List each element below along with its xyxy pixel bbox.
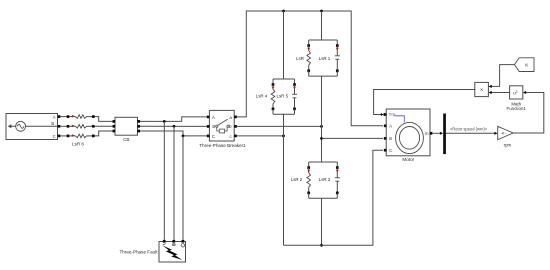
wire K to product: [489, 65, 515, 88]
CB input ports: [113, 120, 116, 132]
svg-text:A: A: [389, 124, 392, 129]
label Three-Phase Fault: [119, 249, 158, 254]
svg-text:C: C: [212, 134, 215, 139]
fault lightning bolt: [162, 245, 182, 260]
node tap C: [182, 135, 185, 138]
svg-text:Three-Phase Fault: Three-Phase Fault: [119, 249, 158, 254]
svg-text:Three-Phase Breaker1: Three-Phase Breaker1: [199, 143, 246, 148]
wire LsR4-5 bottom down to bottom rail: [283, 114, 285, 245]
series RL branch LsR 5: [292, 79, 297, 114]
wire fault tap B down: [173, 126, 175, 240]
svg-text:×: ×: [480, 88, 483, 94]
wire source B to branch: [60, 125, 66, 127]
motor outer circle: [396, 122, 424, 153]
breaker switch symbol: [216, 119, 229, 133]
svg-text:Function1: Function1: [507, 106, 527, 111]
parallel pair LsR 4 / LsR 5 frame bars: [273, 79, 295, 114]
node rail tee: [320, 244, 323, 247]
wire breaker c to node: [237, 135, 284, 137]
svg-text:LsR 2: LsR 2: [291, 177, 303, 182]
series RL branch LsR 1: [335, 40, 340, 76]
wire bus bar to gain: [446, 132, 498, 135]
series RL branch LsR 6 phase A: [67, 115, 95, 119]
wire gain to math function: [513, 91, 544, 133]
label Motor: [402, 157, 414, 162]
wire breaker b to node: [237, 125, 322, 127]
motor port letters: [389, 124, 429, 153]
node c join: [282, 135, 285, 138]
wire LsR-1 bottom down to LsR2-3 top: [321, 76, 323, 162]
motor port Tm: [384, 113, 387, 116]
gain block rpm: [498, 126, 514, 139]
wire branch B to CB in2: [95, 125, 113, 127]
block Three-Phase Breaker1: [209, 110, 234, 141]
svg-text:LsR 1: LsR 1: [319, 56, 331, 61]
node tap A: [163, 120, 166, 123]
block Product: [475, 82, 489, 96]
label CB: [123, 137, 129, 142]
series RL branch LsR 6 phase C: [67, 134, 95, 138]
motor port m: [430, 132, 433, 135]
svg-text:rpm: rpm: [504, 143, 512, 148]
motor port A: [384, 124, 387, 127]
series RL branch LsR 4: [271, 79, 275, 114]
svg-text:Tm: Tm: [389, 112, 396, 118]
goto tag K: [514, 58, 534, 72]
wire math function to product: [489, 91, 510, 94]
svg-text:LsR 3: LsR 3: [319, 177, 331, 182]
svg-text:-K-: -K-: [501, 132, 507, 136]
block Motor: [386, 109, 430, 156]
label LsR 1: [319, 56, 331, 61]
breaker output ports: [234, 116, 237, 138]
wire CB out3 to breaker C: [140, 131, 207, 136]
wire CB out2 to breaker B: [140, 125, 207, 127]
wire to motor B: [322, 137, 384, 139]
node top line to LsR-1: [320, 10, 323, 13]
label LsR 6: [72, 142, 84, 147]
svg-text:B: B: [389, 136, 392, 141]
label LsR 5: [277, 93, 289, 98]
bus selector bar: [443, 114, 446, 155]
svg-text:LsR 4: LsR 4: [256, 93, 268, 98]
svg-text:LsR 5: LsR 5: [277, 93, 289, 98]
svg-text:m: m: [425, 131, 429, 136]
wire branch A to CB in1: [95, 117, 113, 122]
svg-text:CB: CB: [123, 137, 129, 142]
three-phase voltage source block: [6, 114, 58, 140]
wire bottom rail to motor C: [284, 150, 384, 245]
wire product to motor Tm: [374, 90, 475, 117]
motor Tm label: [389, 112, 405, 122]
wire source A to branch: [60, 116, 66, 118]
svg-text:LsR 6: LsR 6: [72, 142, 84, 147]
svg-text:A: A: [53, 114, 56, 119]
svg-text:B: B: [51, 121, 54, 126]
series RL branch LsR 2: [307, 162, 311, 198]
label LsR 3: [319, 177, 331, 182]
series RL branch LsR 3: [335, 162, 340, 198]
parallel pair LsR 2 / LsR 3 frame bars: [309, 162, 338, 198]
block Three-Phase Fault: [159, 242, 186, 263]
svg-text:C: C: [389, 148, 392, 153]
node top line to LsR4-5: [282, 10, 285, 13]
motor inner circle: [399, 127, 419, 150]
node tap B: [173, 125, 176, 128]
label LsR 2: [291, 177, 303, 182]
label LsR 4: [256, 93, 268, 98]
fault input ports: [163, 240, 184, 243]
source output ports A B C: [58, 115, 61, 137]
parallel pair LsR / LsR 1 frame bars: [309, 40, 338, 76]
label Math Function1: [507, 101, 527, 111]
wire fault tap A down: [163, 121, 165, 240]
series RL branch LsR 6 phase B: [67, 125, 95, 129]
svg-text:LsR: LsR: [296, 56, 304, 61]
label Three-Phase Breaker1: [199, 143, 246, 148]
svg-text:C: C: [53, 134, 56, 139]
wire LsR2-3 bottom down to rail: [321, 198, 323, 245]
motor port B: [384, 137, 387, 140]
block CB: [115, 117, 138, 135]
wire source C to branch: [60, 135, 66, 137]
wire top line down to LsR4-5 top: [283, 11, 285, 79]
breaker input ports: [207, 116, 210, 138]
breaker port letters: [212, 115, 233, 139]
fault port marks: [163, 243, 185, 247]
node b join: [320, 125, 323, 128]
motor port C: [384, 149, 387, 152]
CB output ports: [137, 120, 140, 132]
wire CB out1 to breaker A: [140, 117, 207, 122]
block Math Function1: [510, 86, 523, 99]
series RL branch LsR: [307, 40, 311, 76]
svg-text:A: A: [212, 115, 215, 120]
wire motor m to bus bar: [432, 132, 443, 135]
node motor-B tee: [320, 137, 323, 140]
svg-text:B: B: [212, 124, 215, 129]
wire fault tap C down: [182, 136, 184, 241]
label Rotor speed: [450, 126, 488, 131]
wire breaker a over top to motor A: [237, 11, 383, 126]
wire top line down to LsR-1 top: [321, 11, 323, 40]
wire branch C to CB in3: [95, 131, 113, 136]
label rpm: [504, 143, 512, 148]
svg-text:<Rotor speed (wm)>: <Rotor speed (wm)>: [450, 126, 488, 131]
svg-text:Motor: Motor: [402, 157, 414, 162]
label LsR: [296, 56, 304, 61]
